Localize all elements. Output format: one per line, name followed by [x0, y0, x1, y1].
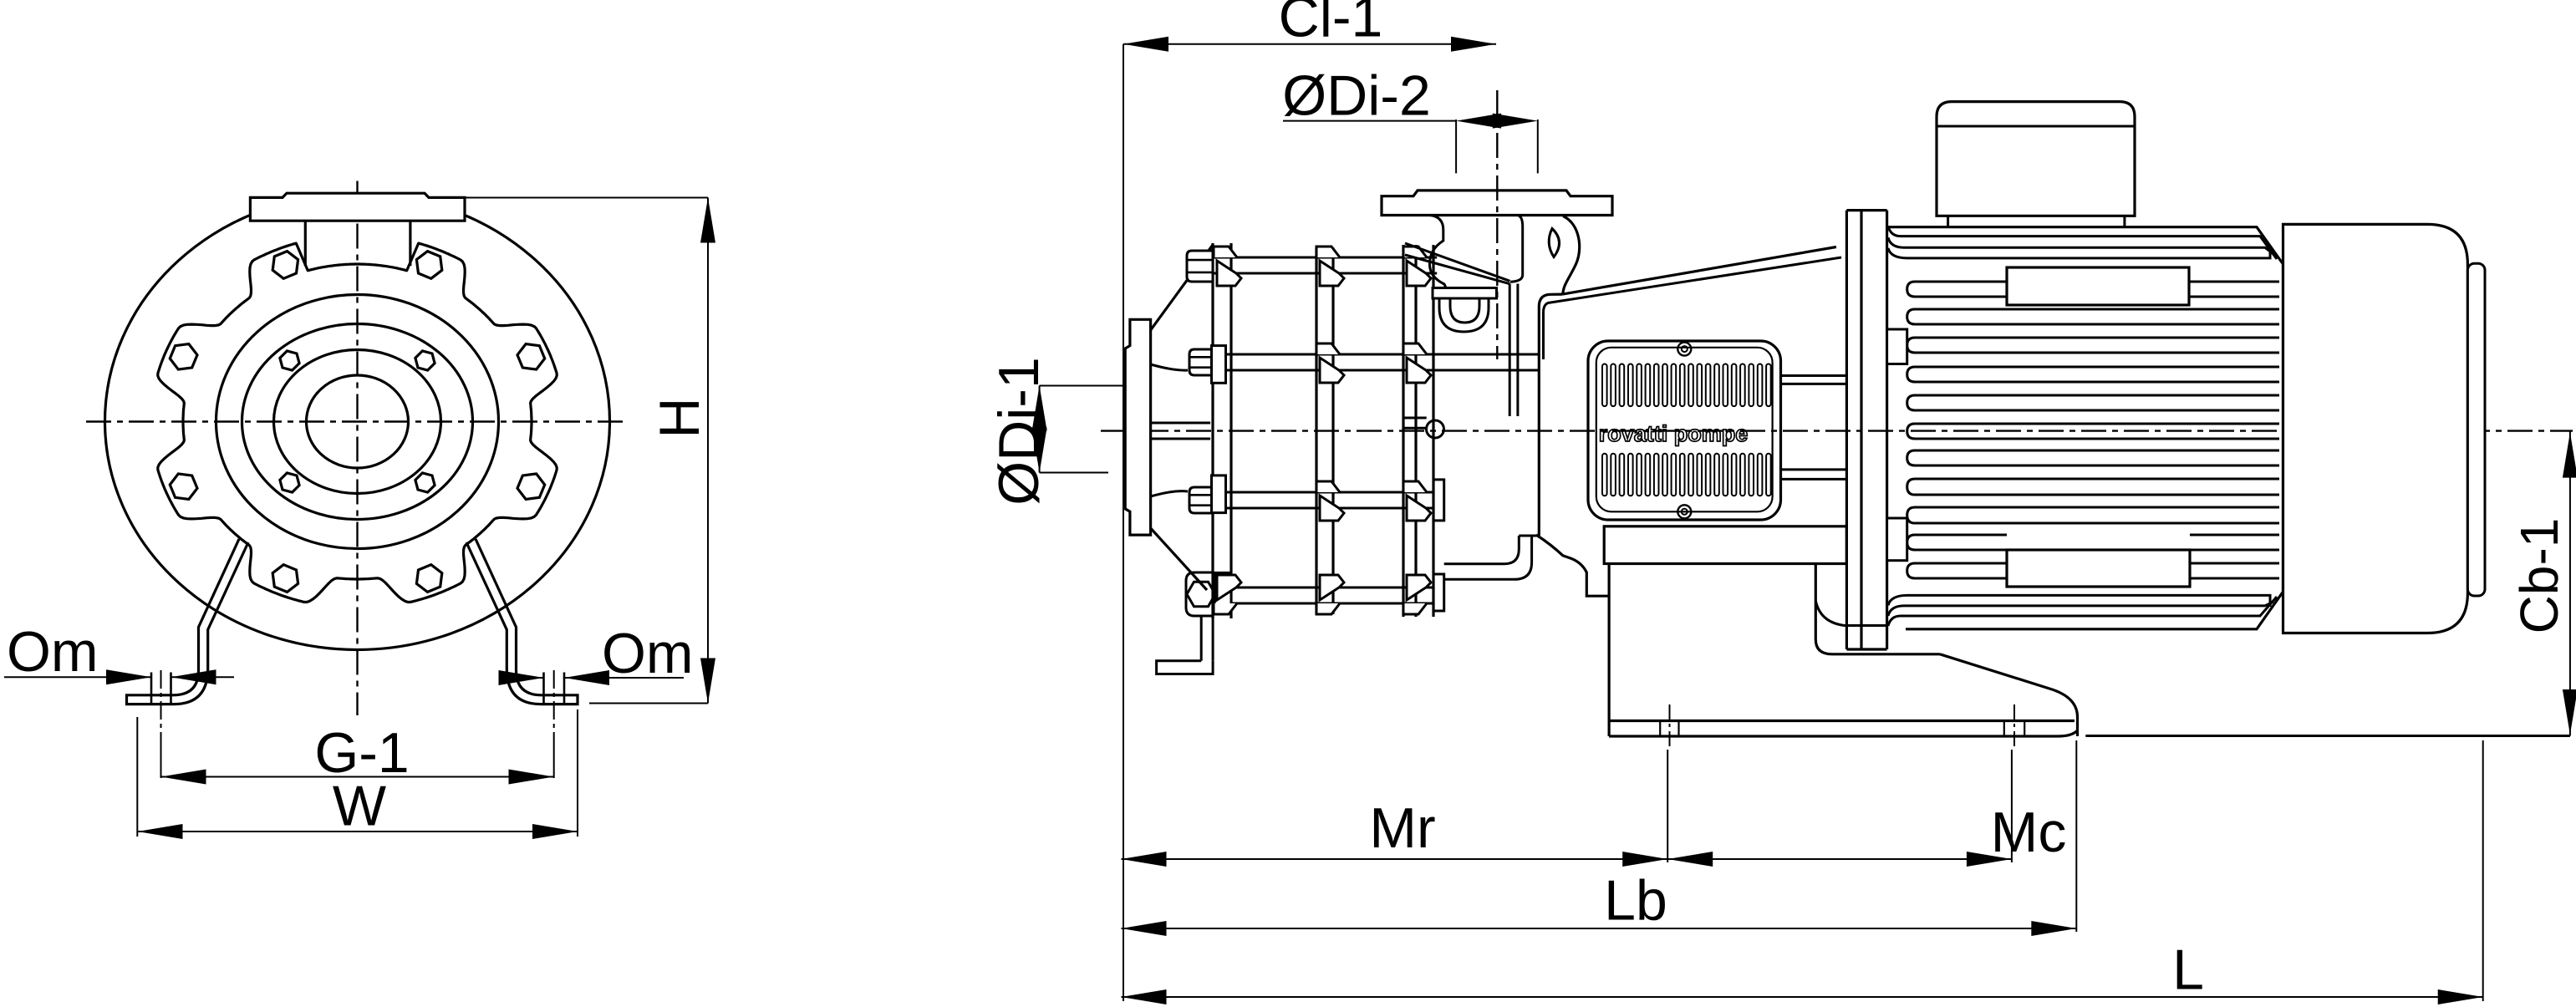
inner bolt hex 3: [280, 473, 299, 492]
right foot slot: [542, 673, 545, 704]
svg-text:Cl-1: Cl-1: [1279, 0, 1383, 49]
svg-text:H: H: [648, 397, 711, 438]
volute lens: [1549, 229, 1559, 257]
discharge column: [1509, 284, 1511, 417]
svg-text:W: W: [333, 775, 386, 838]
front view vertical centerline: [356, 181, 358, 716]
front support bracket: [1200, 616, 1203, 661]
dimension Mr: [1123, 326, 1124, 1001]
svg-text:L: L: [2172, 938, 2204, 1002]
flange ring ellipse: [216, 295, 499, 549]
svg-text:ØDi-2: ØDi-2: [1282, 64, 1431, 127]
bearing flange scalloped outline with bolt tabs: [158, 243, 557, 602]
svg-text:Mc: Mc: [1991, 801, 2067, 864]
rear bearing disc: [2467, 263, 2485, 596]
dimension L: [2482, 740, 2484, 1001]
svg-text:Cb-1: Cb-1: [2509, 518, 2569, 634]
stage rib flags: [1214, 247, 1237, 257]
casing ring ellipse: [242, 324, 473, 520]
discharge neck (front view): [304, 221, 307, 266]
side view shaft centerline: [1101, 430, 2573, 431]
flange bolt hex 7: [416, 252, 441, 279]
adapter barrel lines beside grille: [1781, 374, 1846, 377]
stage flange 1: [1211, 243, 1214, 618]
casing top slant lines: [1405, 243, 1510, 281]
discharge neck right outer: [1563, 216, 1580, 295]
motor adapter: [1562, 247, 1836, 295]
pedestal body: [1607, 564, 1610, 737]
discharge flange: [1382, 191, 1612, 216]
flange bolt hex 3: [272, 565, 298, 593]
grille slots: [1602, 364, 1607, 407]
motor flange lug bottom: [1887, 518, 1907, 561]
suction hub lines: [1151, 422, 1211, 425]
right foot bolt centerline: [553, 670, 555, 749]
flange bolt hex 6: [272, 252, 298, 279]
svg-text:Om: Om: [7, 620, 99, 684]
baseplate ref line right: [2085, 735, 2570, 737]
front view left leg: [127, 539, 240, 704]
flange bolt hex 5: [170, 344, 197, 370]
top discharge flange box (front view): [250, 193, 465, 221]
dimension Cl-1: [1123, 44, 1124, 326]
stage flange 2: [1315, 248, 1317, 615]
gauge boss plate: [1433, 288, 1497, 299]
anchor slot motor side: [2003, 721, 2005, 737]
svg-text:Om: Om: [602, 622, 694, 685]
svg-text:rovatti pompe: rovatti pompe: [1599, 421, 1749, 446]
bottom tie rod boss: [1186, 572, 1213, 616]
dimension G-1: [161, 776, 554, 778]
motor flange lug top: [1887, 329, 1907, 364]
flange bolt hex 1: [517, 474, 545, 500]
dimension Cb-1: [2569, 431, 2571, 736]
shaft bore ellipse: [307, 375, 409, 468]
terminal box pedestal: [1947, 216, 1949, 226]
motor cooling fins: [1907, 309, 2279, 324]
ventilation grille plate: [1588, 341, 1781, 520]
dimension H: [466, 197, 708, 199]
left foot bolt centerline: [160, 670, 162, 749]
motor wrap contour lines top: [1888, 226, 2277, 259]
front view right leg: [476, 539, 578, 704]
casing to pedestal junction: [1536, 535, 1609, 596]
last stage casing right: [1538, 307, 1540, 536]
inner bolt hex 2: [415, 351, 435, 370]
svg-text:Mr: Mr: [1369, 796, 1435, 860]
gauge cup: [1439, 298, 1489, 332]
pump support pedestal slab: [1604, 526, 1846, 564]
adapter inner wall: [1544, 257, 1842, 359]
dimension Mc: [1667, 858, 2012, 860]
inner bolt hex 4: [415, 473, 435, 492]
motor body outline: [1887, 227, 2283, 629]
fan cowl: [2283, 224, 2468, 633]
anchor slot pump side: [1659, 721, 1661, 737]
tie rod hex heads: [1187, 251, 1213, 282]
inner bolt hex 1: [280, 351, 299, 370]
suction casing cone: [1151, 245, 1213, 330]
suction flange plate: [1125, 319, 1150, 535]
flange bolt hex 8: [517, 344, 545, 370]
front view horizontal centerline: [86, 420, 625, 422]
left foot slot: [150, 673, 153, 704]
flange bolt hex 2: [416, 565, 441, 593]
baseplate: [1609, 720, 2075, 722]
tie rods: [1213, 257, 1437, 259]
discharge neck left: [1429, 216, 1446, 288]
motor nameplate top: [2007, 267, 2189, 305]
discharge centerline: [1496, 90, 1498, 359]
grille bolts: [1677, 343, 1691, 356]
motor wrap contour lines bottom: [1888, 597, 2277, 626]
dimension Lb: [2075, 740, 2077, 932]
motor nameplate bottom: [2007, 550, 2190, 587]
svg-text:Lb: Lb: [1604, 869, 1667, 933]
motor flange bars: [1845, 211, 1848, 649]
terminal box: [1937, 102, 2135, 216]
flange bolt hex 4: [170, 474, 197, 500]
stage flange 3: [1402, 245, 1404, 617]
discharge neck right inner: [1510, 216, 1523, 282]
shaft stub: [1403, 417, 1427, 420]
casing bottom contours: [1444, 536, 1520, 564]
dimension W: [136, 717, 138, 837]
pump casing outer ellipse: [105, 194, 610, 650]
seal housing ellipse: [274, 350, 441, 494]
